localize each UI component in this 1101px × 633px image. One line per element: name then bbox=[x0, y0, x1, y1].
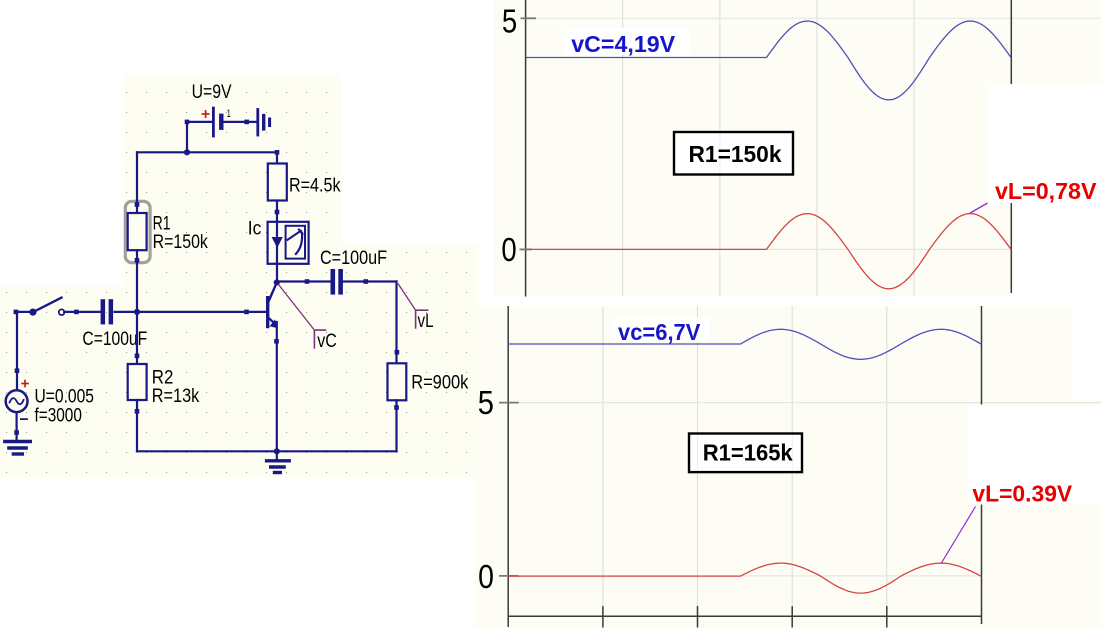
node collector junction bbox=[274, 279, 280, 285]
top plot tick 0 bbox=[520, 248, 533, 250]
source minus mark bbox=[21, 418, 27, 420]
svg-text:R=150k: R=150k bbox=[153, 232, 209, 253]
resistor R4 R=900k bbox=[388, 363, 407, 400]
resistor R1 R=150k (selected) bbox=[125, 201, 150, 262]
curve vc (bottom, blue) bbox=[508, 329, 981, 359]
svg-text:5: 5 bbox=[478, 384, 494, 421]
white label box vL=0.39V bbox=[967, 405, 1101, 505]
curve vL (top, red) bbox=[526, 214, 1011, 289]
wire base bbox=[137, 311, 266, 313]
label vC=4,19V bbox=[564, 28, 690, 55]
leader line to vL=0,78V bbox=[970, 203, 987, 213]
white label box vL=0,78V bbox=[988, 84, 1101, 203]
svg-text:1: 1 bbox=[227, 108, 231, 120]
top plot gridline 0 bbox=[532, 248, 1011, 250]
node ground junction bbox=[274, 448, 280, 454]
white patch right of top plot bbox=[1013, 84, 1101, 297]
top plot y-axis bbox=[525, 0, 527, 297]
probe vC bbox=[279, 285, 315, 331]
svg-text:R=900k: R=900k bbox=[411, 373, 469, 394]
bottom plot vertical gridlines bbox=[603, 306, 887, 616]
resistor R2 R=13k bbox=[136, 312, 138, 364]
leader line to vL=0.39V bbox=[941, 507, 975, 564]
probe vL bbox=[398, 284, 415, 310]
top plot right axis bbox=[1010, 0, 1012, 293]
svg-text:0: 0 bbox=[501, 231, 516, 268]
top plot vertical gridlines bbox=[623, 0, 914, 297]
ammeter Ic bbox=[268, 222, 309, 264]
svg-text:R1=150k: R1=150k bbox=[689, 141, 783, 167]
bottom plot x ticks bbox=[603, 606, 887, 627]
top plot tick 5 bbox=[521, 17, 537, 19]
wire source vertical bbox=[16, 312, 18, 391]
svg-text:R=4.5k: R=4.5k bbox=[289, 175, 341, 196]
box R1=150k bbox=[674, 132, 793, 175]
label vc=6,7V bbox=[612, 317, 710, 342]
white patch right of bottom plot bbox=[1071, 306, 1101, 399]
svg-text:vL=0.39V: vL=0.39V bbox=[972, 481, 1072, 507]
svg-text:vC: vC bbox=[317, 331, 337, 352]
resistor R3 R=4.5k bbox=[275, 150, 280, 155]
svg-text:R=13k: R=13k bbox=[152, 386, 200, 407]
bottom plot right axis bbox=[981, 306, 983, 624]
svg-text:C=100uF: C=100uF bbox=[320, 248, 387, 269]
svg-text:vL: vL bbox=[418, 311, 434, 332]
battery plus mark bbox=[203, 111, 209, 117]
wire top rail bbox=[137, 151, 277, 153]
wire bottom rail bbox=[137, 450, 397, 452]
node battery tap junction bbox=[184, 149, 190, 155]
node base junction bbox=[134, 309, 140, 315]
svg-text:R1=165k: R1=165k bbox=[703, 440, 794, 466]
bottom plot gridline 5 bbox=[518, 402, 1101, 404]
bottom plot tick 5 bbox=[499, 402, 519, 404]
svg-text:U=9V: U=9V bbox=[192, 82, 232, 103]
source plus mark bbox=[22, 381, 28, 387]
bottom plot tick 0 bbox=[499, 575, 519, 577]
transistor Q1 bbox=[266, 296, 269, 328]
box R1=165k bbox=[689, 434, 802, 473]
svg-text:vL=0,78V: vL=0,78V bbox=[995, 178, 1097, 204]
battery B1 U=9V bbox=[187, 121, 212, 123]
capacitor C2 C=100uF (output) bbox=[277, 280, 331, 282]
svg-text:vc=6,7V: vc=6,7V bbox=[618, 319, 701, 345]
wire battery drop bbox=[186, 122, 188, 152]
svg-text:Ic: Ic bbox=[248, 219, 261, 240]
wire output vertical bbox=[395, 282, 397, 364]
curve vC (top, blue) bbox=[526, 21, 1011, 100]
svg-text:vC=4,19V: vC=4,19V bbox=[571, 31, 675, 57]
top plot gridline 5 bbox=[536, 17, 1101, 19]
bottom plot y-axis bbox=[507, 306, 509, 627]
ground (emitter) bbox=[276, 451, 278, 459]
ground (source) bbox=[16, 412, 18, 440]
source V1 U=0.005 f=3000 bbox=[6, 390, 28, 412]
svg-text:U=0.005: U=0.005 bbox=[35, 387, 95, 408]
capacitor C1 C=100uF (input) bbox=[101, 299, 106, 324]
switch S1 bbox=[14, 310, 19, 315]
bottom plot x-axis bbox=[508, 615, 982, 617]
bottom plot gridline 0 bbox=[508, 575, 982, 577]
svg-text:f=3000: f=3000 bbox=[35, 405, 82, 426]
curve vL (bottom, red) bbox=[508, 563, 981, 593]
svg-text:0: 0 bbox=[478, 558, 494, 595]
svg-text:5: 5 bbox=[502, 3, 517, 40]
